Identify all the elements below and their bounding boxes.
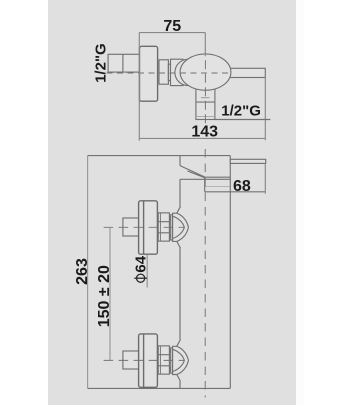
svg-text:75: 75 [163,18,181,35]
svg-text:263: 263 [74,258,91,285]
svg-text:64: 64 [133,255,150,272]
svg-text:150 ± 20: 150 ± 20 [96,265,113,327]
svg-text:1/2"G: 1/2"G [221,102,261,119]
svg-text:1/2"G: 1/2"G [92,43,109,83]
svg-text:68: 68 [233,178,251,195]
svg-text:143: 143 [191,123,218,140]
